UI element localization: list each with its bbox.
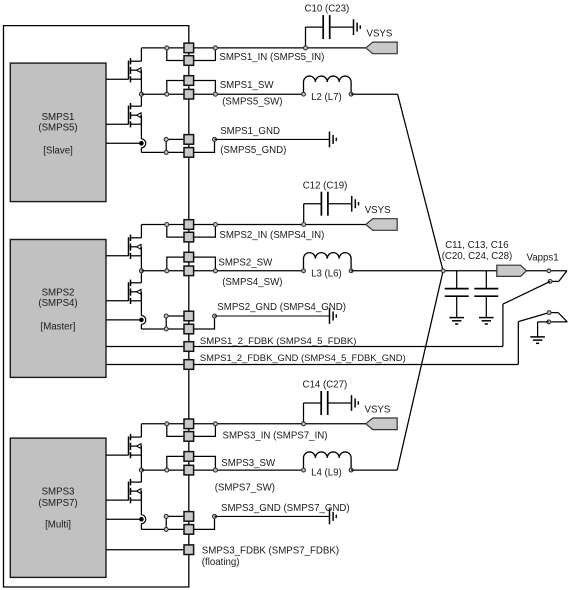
svg-text:(SMPS5_SW): (SMPS5_SW) [222, 97, 282, 108]
svg-text:SMPS1_2_FDBK_GND (SMPS4_5_FDBK: SMPS1_2_FDBK_GND (SMPS4_5_FDBK_GND) [200, 352, 406, 363]
svg-text:SMPS2_IN (SMPS4_IN): SMPS2_IN (SMPS4_IN) [219, 230, 324, 241]
svg-text:(SMPS5_GND): (SMPS5_GND) [220, 145, 286, 156]
svg-text:VSYS: VSYS [367, 28, 393, 39]
svg-text:SMPS1_GND: SMPS1_GND [220, 126, 280, 137]
svg-text:(SMPS4): (SMPS4) [38, 298, 77, 309]
svg-text:SMPS2_GND (SMPS4_GND): SMPS2_GND (SMPS4_GND) [217, 302, 346, 313]
svg-text:SMPS1_SW: SMPS1_SW [220, 80, 275, 91]
svg-text:SMPS3_FDBK (SMPS7_FDBK): SMPS3_FDBK (SMPS7_FDBK) [202, 546, 339, 557]
svg-text:(floating): (floating) [202, 557, 240, 568]
svg-text:(SMPS5): (SMPS5) [38, 123, 77, 134]
svg-text:L4 (L9): L4 (L9) [311, 468, 342, 479]
svg-text:SMPS1_2_FDBK (SMPS4_5_FDBK): SMPS1_2_FDBK (SMPS4_5_FDBK) [200, 336, 357, 347]
svg-text:Vapps1: Vapps1 [527, 252, 559, 263]
svg-text:C11, C13, C16: C11, C13, C16 [445, 240, 508, 251]
svg-text:VSYS: VSYS [365, 404, 391, 415]
svg-text:[Master]: [Master] [41, 322, 76, 333]
svg-text:SMPS3_GND (SMPS7_GND): SMPS3_GND (SMPS7_GND) [221, 503, 350, 514]
svg-text:SMPS1_IN (SMPS5_IN): SMPS1_IN (SMPS5_IN) [219, 52, 324, 63]
svg-text:SMPS3_IN (SMPS7_IN): SMPS3_IN (SMPS7_IN) [223, 431, 328, 442]
svg-text:C10 (C23): C10 (C23) [305, 4, 350, 15]
svg-text:SMPS2_SW: SMPS2_SW [218, 257, 273, 268]
svg-text:C14 (C27): C14 (C27) [303, 380, 348, 391]
svg-text:(SMPS4_SW): (SMPS4_SW) [222, 277, 282, 288]
svg-text:[Multi]: [Multi] [45, 520, 71, 531]
svg-text:SMPS2: SMPS2 [42, 288, 75, 299]
svg-text:SMPS3_SW: SMPS3_SW [221, 458, 276, 469]
svg-text:VSYS: VSYS [365, 205, 391, 216]
svg-text:L2 (L7): L2 (L7) [311, 92, 342, 103]
svg-text:C12 (C19): C12 (C19) [303, 180, 348, 191]
svg-text:[Slave]: [Slave] [43, 146, 73, 157]
svg-text:L3 (L6): L3 (L6) [311, 268, 342, 279]
svg-text:(SMPS7_SW): (SMPS7_SW) [215, 483, 275, 494]
svg-text:SMPS1: SMPS1 [42, 112, 75, 123]
svg-text:(C20, C24, C28): (C20, C24, C28) [442, 251, 513, 262]
svg-text:(SMPS7): (SMPS7) [38, 498, 77, 509]
svg-text:SMPS3: SMPS3 [42, 487, 75, 498]
